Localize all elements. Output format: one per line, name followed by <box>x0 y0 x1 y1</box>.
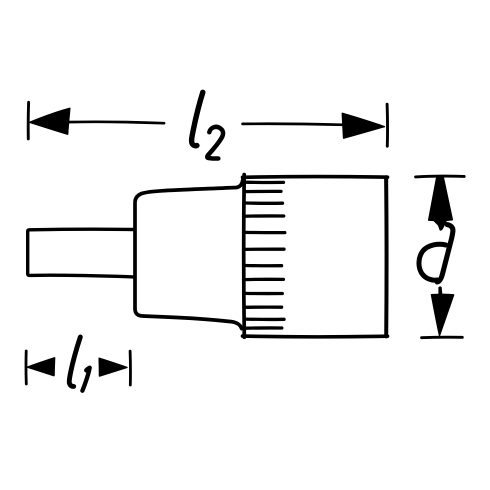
dimension l2 left arrowhead <box>30 108 70 134</box>
label l1 letter l <box>69 337 80 386</box>
dimension d bottom arrow tail <box>439 287 442 295</box>
label l2 subscript 2 <box>207 127 223 159</box>
socket body right edge <box>384 177 388 336</box>
dimension l2 line right segment <box>243 124 344 125</box>
dimension l1 right arrowhead <box>99 358 127 376</box>
socket body bottom edge <box>243 334 388 338</box>
socket body left knurled edge <box>242 175 246 338</box>
knurl tooth 6 <box>245 248 284 252</box>
knurl tooth 5 <box>245 231 285 235</box>
knurl tooth 10 <box>245 305 281 308</box>
knurl tooth 1 <box>245 181 283 185</box>
label d stem <box>437 225 453 282</box>
label d bowl <box>419 244 446 280</box>
dimension d bottom tick <box>422 336 463 339</box>
dimension l1 left tick <box>25 351 28 384</box>
knurl tooth 7 <box>245 264 281 268</box>
knurl tooth 11 <box>245 317 284 321</box>
dimension l2 right arrowhead <box>342 113 384 138</box>
knurl tooth 3 <box>245 201 282 205</box>
dimension d top arrowhead <box>429 178 453 220</box>
dimension d bottom arrowhead <box>432 294 454 335</box>
knurl tooth 2 <box>245 190 281 194</box>
tapered cone body outline <box>135 179 243 328</box>
label l1 subscript 1 <box>82 368 89 391</box>
dimension l2 right tick <box>386 104 389 146</box>
label l2 letter l <box>192 92 203 145</box>
knurl tooth 9 <box>245 292 282 295</box>
dimension l2 line left segment <box>66 122 164 123</box>
dimension d top arrow tail <box>434 221 447 231</box>
knurl tooth 8 <box>245 278 283 282</box>
knurl tooth 12 <box>245 326 282 330</box>
dimension d top tick <box>416 175 465 179</box>
socket body top edge <box>243 175 388 179</box>
knurl tooth 4 <box>245 214 284 218</box>
dimension l2 left tick <box>27 102 30 139</box>
dimension l1 right tick <box>129 351 132 385</box>
dimension l1 left arrowhead <box>28 358 55 376</box>
drive shank outline <box>28 229 134 277</box>
